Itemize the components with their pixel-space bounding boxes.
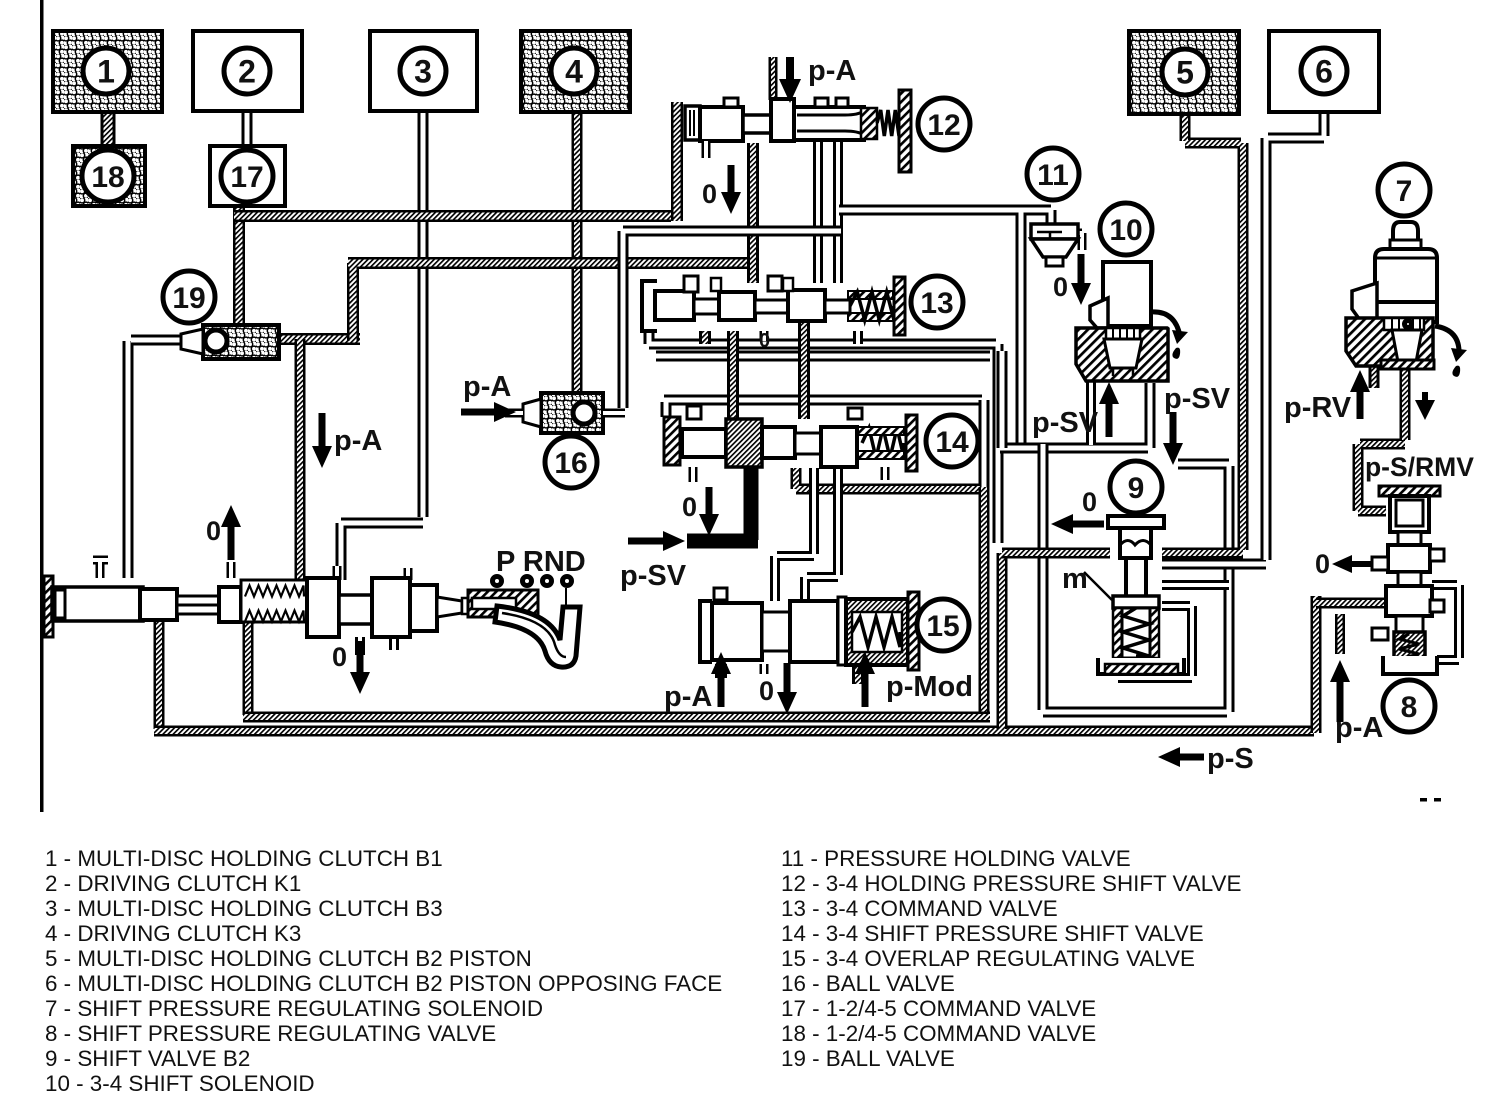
svg-text:p-A: p-A <box>334 425 382 457</box>
svg-text:5: 5 <box>1176 55 1194 91</box>
svg-text:0: 0 <box>206 516 221 546</box>
svg-text:17: 17 <box>230 161 263 194</box>
svg-text:0: 0 <box>759 330 770 352</box>
svg-text:0: 0 <box>682 492 697 522</box>
svg-text:13: 13 <box>920 287 953 320</box>
svg-text:p-A: p-A <box>463 371 511 403</box>
svg-text:0: 0 <box>332 642 347 672</box>
svg-text:5 - MULTI-DISC HOLDING CLUTCH: 5 - MULTI-DISC HOLDING CLUTCH B2 PISTON <box>45 946 532 971</box>
svg-text:9 - SHIFT VALVE B2: 9 - SHIFT VALVE B2 <box>45 1046 250 1071</box>
svg-text:4 - DRIVING CLUTCH K3: 4 - DRIVING CLUTCH K3 <box>45 921 301 946</box>
svg-text:0: 0 <box>1053 272 1068 302</box>
svg-text:p-A: p-A <box>664 681 712 713</box>
svg-text:p-SV: p-SV <box>1164 383 1231 415</box>
svg-text:P RND: P RND <box>496 546 586 578</box>
svg-text:p-A: p-A <box>808 55 856 87</box>
svg-text:10: 10 <box>1109 214 1142 247</box>
svg-text:15: 15 <box>926 610 959 643</box>
svg-text:14 - 3-4 SHIFT PRESSURE SHIFT: 14 - 3-4 SHIFT PRESSURE SHIFT VALVE <box>781 921 1204 946</box>
svg-text:8 - SHIFT PRESSURE REGULATING: 8 - SHIFT PRESSURE REGULATING VALVE <box>45 1021 496 1046</box>
svg-text:2: 2 <box>238 54 256 90</box>
svg-text:7 - SHIFT PRESSURE REGULATING: 7 - SHIFT PRESSURE REGULATING SOLENOID <box>45 996 543 1021</box>
svg-text:p-Mod: p-Mod <box>886 671 973 703</box>
svg-text:6: 6 <box>1315 54 1333 90</box>
svg-text:11: 11 <box>1037 159 1069 192</box>
svg-text:18 - 1-2/4-5 COMMAND VALVE: 18 - 1-2/4-5 COMMAND VALVE <box>781 1021 1096 1046</box>
svg-text:3 - MULTI-DISC HOLDING CLUTCH: 3 - MULTI-DISC HOLDING CLUTCH B3 <box>45 896 443 921</box>
svg-text:1 - MULTI-DISC HOLDING CLUTCH: 1 - MULTI-DISC HOLDING CLUTCH B1 <box>45 846 443 871</box>
svg-text:10 - 3-4 SHIFT SOLENOID: 10 - 3-4 SHIFT SOLENOID <box>45 1071 315 1096</box>
svg-text:p-SV: p-SV <box>620 560 687 592</box>
svg-text:p-RV: p-RV <box>1284 392 1352 424</box>
svg-text:12: 12 <box>927 109 960 142</box>
svg-text:14: 14 <box>935 426 969 459</box>
svg-text:0: 0 <box>1082 487 1097 517</box>
svg-text:17 - 1-2/4-5 COMMAND VALVE: 17 - 1-2/4-5 COMMAND VALVE <box>781 996 1096 1021</box>
svg-text:p-SV: p-SV <box>1032 407 1099 439</box>
svg-text:m: m <box>1062 563 1088 595</box>
svg-text:4: 4 <box>565 54 583 90</box>
svg-text:p-S/RMV: p-S/RMV <box>1365 452 1474 482</box>
svg-text:p-S: p-S <box>1207 743 1254 775</box>
svg-text:p-A: p-A <box>1335 712 1383 744</box>
svg-text:13 - 3-4 COMMAND VALVE: 13 - 3-4 COMMAND VALVE <box>781 896 1058 921</box>
svg-text:1: 1 <box>97 54 115 90</box>
svg-text:16 - BALL VALVE: 16 - BALL VALVE <box>781 971 955 996</box>
svg-text:11 - PRESSURE HOLDING VALVE: 11 - PRESSURE HOLDING VALVE <box>781 846 1131 871</box>
svg-text:16: 16 <box>554 447 587 480</box>
svg-text:19: 19 <box>172 282 205 315</box>
svg-text:12 - 3-4 HOLDING PRESSURE SHIF: 12 - 3-4 HOLDING PRESSURE SHIFT VALVE <box>781 871 1241 896</box>
svg-text:8: 8 <box>1401 691 1418 724</box>
svg-text:18: 18 <box>91 161 124 194</box>
svg-text:7: 7 <box>1396 175 1413 208</box>
svg-text:0: 0 <box>1315 549 1330 579</box>
svg-text:0: 0 <box>759 676 774 706</box>
svg-text:19 - BALL VALVE: 19 - BALL VALVE <box>781 1046 955 1071</box>
svg-text:2 - DRIVING CLUTCH K1: 2 - DRIVING CLUTCH K1 <box>45 871 301 896</box>
svg-text:0: 0 <box>702 179 717 209</box>
svg-text:15 - 3-4 OVERLAP REGULATING VA: 15 - 3-4 OVERLAP REGULATING VALVE <box>781 946 1195 971</box>
svg-text:6 - MULTI-DISC HOLDING CLUTCH: 6 - MULTI-DISC HOLDING CLUTCH B2 PISTON … <box>45 971 722 996</box>
svg-text:9: 9 <box>1128 472 1145 505</box>
svg-text:3: 3 <box>414 54 432 90</box>
